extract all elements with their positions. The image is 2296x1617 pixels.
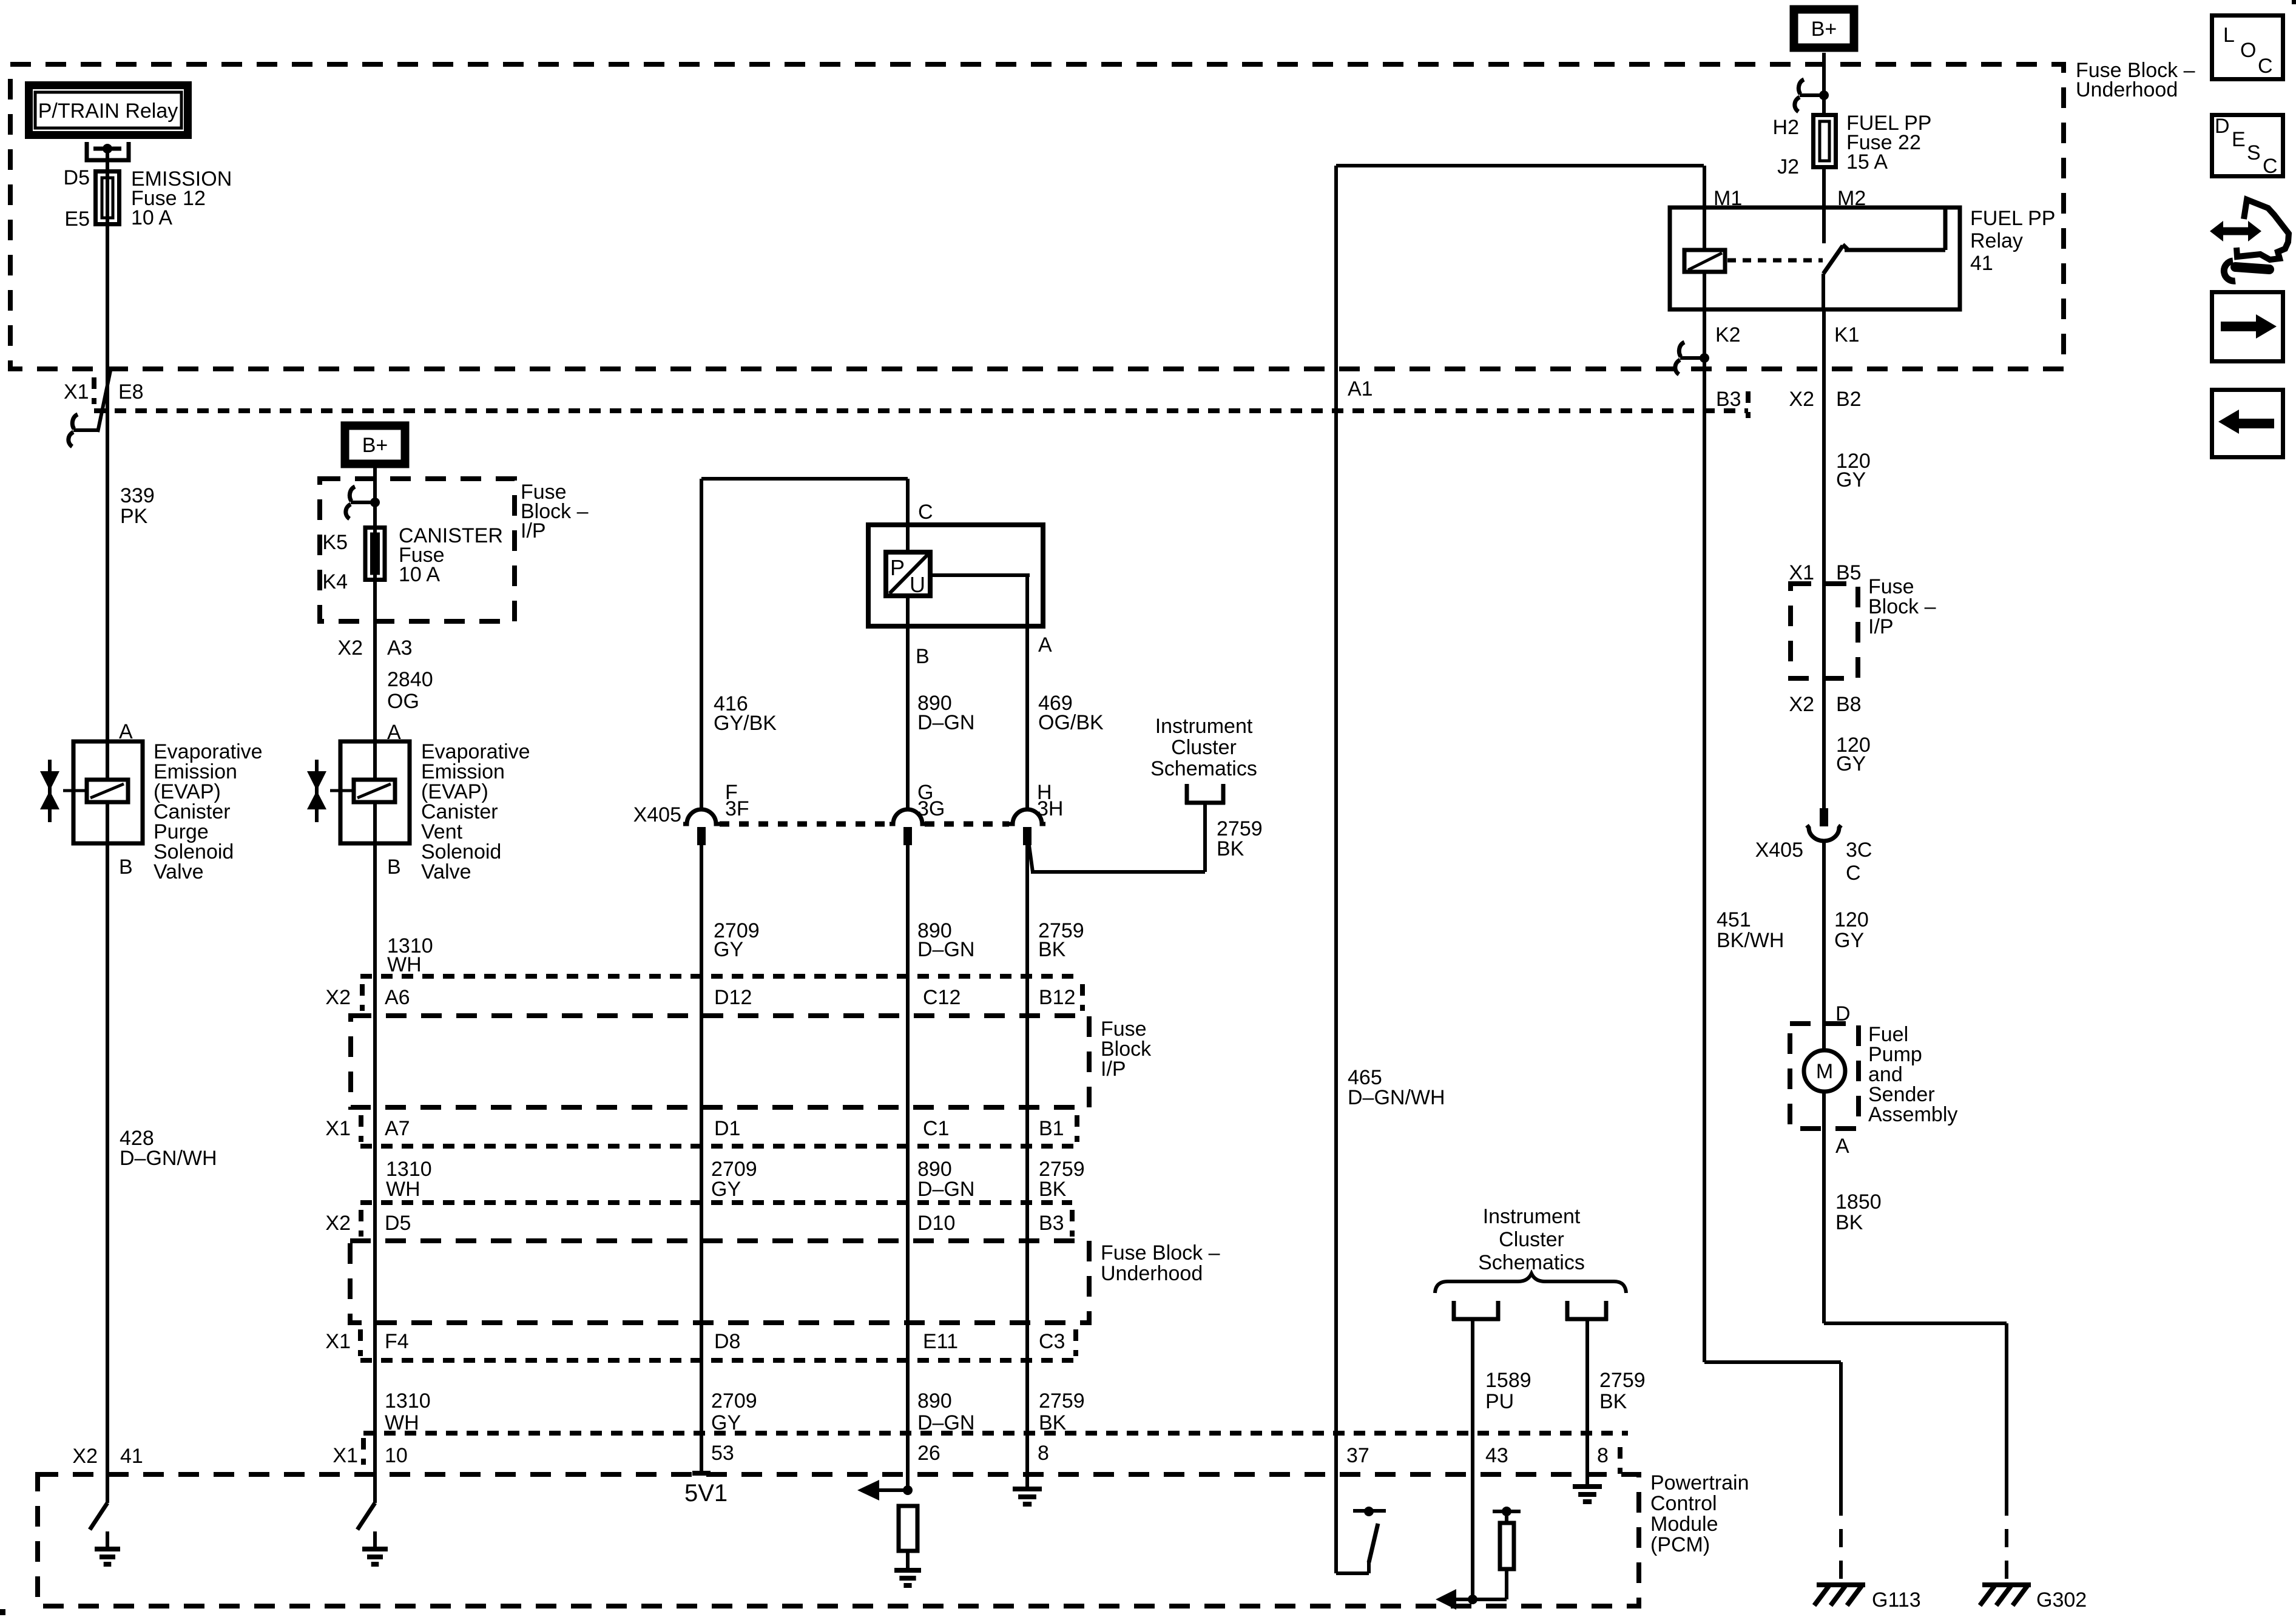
svg-text:2709: 2709: [711, 1389, 757, 1413]
svg-text:P/TRAIN Relay: P/TRAIN Relay: [38, 100, 178, 123]
svg-text:1310: 1310: [385, 1389, 431, 1413]
svg-text:B3: B3: [1039, 1212, 1064, 1235]
svg-text:K4: K4: [322, 570, 348, 593]
svg-text:8: 8: [1597, 1444, 1609, 1467]
svg-text:OG: OG: [387, 690, 419, 713]
svg-text:WH: WH: [386, 1178, 420, 1201]
svg-text:B2: B2: [1836, 388, 1862, 411]
svg-text:GY: GY: [711, 1178, 741, 1201]
svg-text:D–GN/WH: D–GN/WH: [1348, 1086, 1445, 1109]
svg-text:26: 26: [917, 1442, 940, 1465]
svg-text:K2: K2: [1715, 323, 1741, 346]
svg-text:41: 41: [1970, 252, 1993, 275]
svg-text:GY: GY: [714, 938, 743, 961]
svg-text:Cluster: Cluster: [1499, 1228, 1564, 1251]
svg-text:BK: BK: [1217, 837, 1244, 860]
svg-text:5V1: 5V1: [684, 1480, 728, 1507]
svg-text:C: C: [2258, 55, 2273, 78]
svg-text:451: 451: [1717, 908, 1751, 931]
svg-text:GY: GY: [1836, 752, 1866, 775]
svg-text:D–GN: D–GN: [917, 711, 974, 734]
svg-text:A: A: [387, 721, 401, 744]
svg-text:G302: G302: [2036, 1588, 2087, 1612]
svg-text:M2: M2: [1837, 187, 1866, 210]
svg-text:A6: A6: [385, 986, 410, 1009]
svg-text:41: 41: [120, 1445, 143, 1468]
svg-text:Assembly: Assembly: [1868, 1103, 1957, 1126]
svg-text:C1: C1: [923, 1117, 949, 1140]
svg-text:K1: K1: [1834, 323, 1860, 346]
svg-text:GY: GY: [711, 1411, 741, 1434]
svg-text:890: 890: [917, 1389, 952, 1413]
svg-text:D–GN: D–GN: [917, 938, 974, 961]
svg-text:X1: X1: [64, 380, 89, 403]
svg-text:I/P: I/P: [1868, 615, 1894, 638]
svg-text:E8: E8: [118, 380, 144, 403]
svg-text:3C: 3C: [1846, 839, 1872, 862]
svg-text:X1: X1: [333, 1444, 358, 1467]
svg-text:X2: X2: [1789, 693, 1814, 716]
svg-text:L: L: [2223, 24, 2235, 47]
svg-text:C: C: [918, 501, 933, 524]
svg-text:X2: X2: [72, 1445, 98, 1468]
svg-text:K5: K5: [322, 531, 348, 554]
svg-text:3H: 3H: [1037, 797, 1063, 820]
svg-text:D5: D5: [385, 1212, 411, 1235]
svg-text:Control: Control: [1650, 1492, 1717, 1515]
svg-text:120: 120: [1834, 908, 1869, 931]
svg-text:B: B: [916, 645, 930, 668]
svg-text:A: A: [119, 720, 133, 743]
svg-text:Module: Module: [1650, 1513, 1718, 1536]
svg-text:A3: A3: [387, 636, 413, 660]
svg-text:X2: X2: [325, 1212, 351, 1235]
svg-text:M1: M1: [1714, 187, 1742, 210]
svg-text:S: S: [2247, 141, 2261, 164]
svg-text:BK: BK: [1039, 1178, 1067, 1201]
svg-text:D5: D5: [64, 166, 90, 189]
svg-text:B+: B+: [362, 434, 388, 457]
svg-text:D–GN: D–GN: [917, 1178, 974, 1201]
svg-text:Fuse Block –: Fuse Block –: [1101, 1241, 1220, 1264]
svg-text:X2: X2: [1789, 388, 1814, 411]
svg-text:F4: F4: [385, 1330, 409, 1353]
svg-text:M: M: [1816, 1060, 1833, 1083]
svg-text:J2: J2: [1777, 155, 1799, 178]
svg-text:X1: X1: [325, 1330, 351, 1353]
svg-text:8: 8: [1038, 1442, 1049, 1465]
svg-text:X1: X1: [1789, 561, 1814, 584]
svg-text:D: D: [2215, 115, 2230, 138]
svg-text:1850: 1850: [1835, 1190, 1882, 1214]
svg-text:339: 339: [120, 484, 155, 507]
svg-text:53: 53: [711, 1442, 734, 1465]
svg-text:Valve: Valve: [421, 860, 471, 883]
svg-text:BK/WH: BK/WH: [1717, 929, 1784, 952]
svg-text:A1: A1: [1348, 377, 1373, 400]
svg-text:C12: C12: [923, 986, 961, 1009]
svg-text:10 A: 10 A: [131, 206, 172, 229]
svg-text:WH: WH: [385, 1411, 419, 1434]
svg-text:Underhood: Underhood: [2076, 78, 2178, 101]
svg-text:D–GN/WH: D–GN/WH: [120, 1147, 217, 1170]
svg-text:BK: BK: [1599, 1390, 1627, 1413]
svg-text:B3: B3: [1716, 388, 1741, 411]
svg-text:C: C: [2263, 155, 2278, 178]
svg-text:I/P: I/P: [1101, 1058, 1126, 1081]
svg-text:3G: 3G: [917, 797, 945, 820]
svg-text:C3: C3: [1039, 1330, 1065, 1353]
svg-text:PK: PK: [120, 505, 148, 528]
svg-text:FUEL PP: FUEL PP: [1970, 207, 2055, 230]
svg-text:Relay: Relay: [1970, 229, 2023, 252]
svg-text:B: B: [119, 856, 133, 879]
svg-text:I/P: I/P: [521, 519, 546, 542]
svg-text:Schematics: Schematics: [1478, 1251, 1585, 1274]
svg-text:BK: BK: [1039, 1411, 1067, 1434]
svg-text:WH: WH: [387, 953, 422, 976]
svg-text:X405: X405: [1755, 839, 1803, 862]
svg-text:A7: A7: [385, 1117, 410, 1140]
svg-text:P: P: [890, 555, 905, 580]
svg-text:1589: 1589: [1485, 1369, 1531, 1392]
svg-text:B8: B8: [1836, 693, 1862, 716]
svg-text:GY/BK: GY/BK: [714, 712, 777, 735]
svg-text:D12: D12: [714, 986, 752, 1009]
svg-text:B12: B12: [1039, 986, 1076, 1009]
svg-text:E5: E5: [64, 208, 90, 231]
svg-text:D: D: [1835, 1002, 1851, 1025]
svg-text:C: C: [1846, 862, 1861, 885]
svg-text:43: 43: [1485, 1444, 1508, 1467]
svg-text:D–GN: D–GN: [917, 1411, 974, 1434]
svg-text:U: U: [910, 572, 925, 597]
svg-text:GY: GY: [1836, 468, 1866, 491]
svg-text:B: B: [387, 856, 401, 879]
svg-text:Underhood: Underhood: [1101, 1262, 1203, 1285]
svg-text:PU: PU: [1485, 1390, 1514, 1413]
svg-text:G113: G113: [1872, 1588, 1921, 1612]
svg-text:X2: X2: [337, 636, 363, 660]
svg-text:X405: X405: [633, 803, 681, 826]
svg-text:Powertrain: Powertrain: [1650, 1471, 1749, 1494]
svg-text:15 A: 15 A: [1846, 150, 1888, 174]
svg-text:D1: D1: [714, 1117, 740, 1140]
svg-text:BK: BK: [1038, 938, 1066, 961]
svg-text:37: 37: [1346, 1444, 1369, 1467]
svg-text:E: E: [2232, 128, 2246, 151]
svg-text:Cluster: Cluster: [1171, 736, 1237, 759]
svg-text:Valve: Valve: [154, 860, 204, 883]
svg-text:B5: B5: [1836, 561, 1862, 584]
svg-text:10: 10: [385, 1444, 408, 1467]
svg-text:Instrument: Instrument: [1155, 715, 1253, 738]
svg-text:GY: GY: [1834, 929, 1864, 952]
svg-text:H2: H2: [1773, 116, 1799, 139]
svg-text:10 A: 10 A: [399, 563, 440, 586]
svg-text:BK: BK: [1835, 1211, 1863, 1234]
svg-text:Instrument: Instrument: [1483, 1205, 1581, 1228]
svg-text:O: O: [2240, 39, 2256, 62]
svg-text:OG/BK: OG/BK: [1038, 711, 1104, 734]
svg-text:A: A: [1038, 633, 1052, 657]
svg-text:X1: X1: [325, 1117, 351, 1140]
svg-text:2840: 2840: [387, 668, 433, 691]
svg-text:(PCM): (PCM): [1650, 1533, 1710, 1556]
svg-text:2759: 2759: [1599, 1369, 1646, 1392]
svg-text:B+: B+: [1811, 18, 1837, 41]
svg-text:D8: D8: [714, 1330, 740, 1353]
svg-text:A: A: [1835, 1135, 1849, 1158]
svg-text:B1: B1: [1039, 1117, 1064, 1140]
svg-text:X2: X2: [325, 986, 351, 1009]
svg-text:2759: 2759: [1039, 1389, 1085, 1413]
svg-text:3F: 3F: [725, 797, 749, 820]
svg-text:Schematics: Schematics: [1150, 757, 1257, 780]
svg-text:E11: E11: [923, 1330, 958, 1353]
svg-text:D10: D10: [917, 1212, 955, 1235]
